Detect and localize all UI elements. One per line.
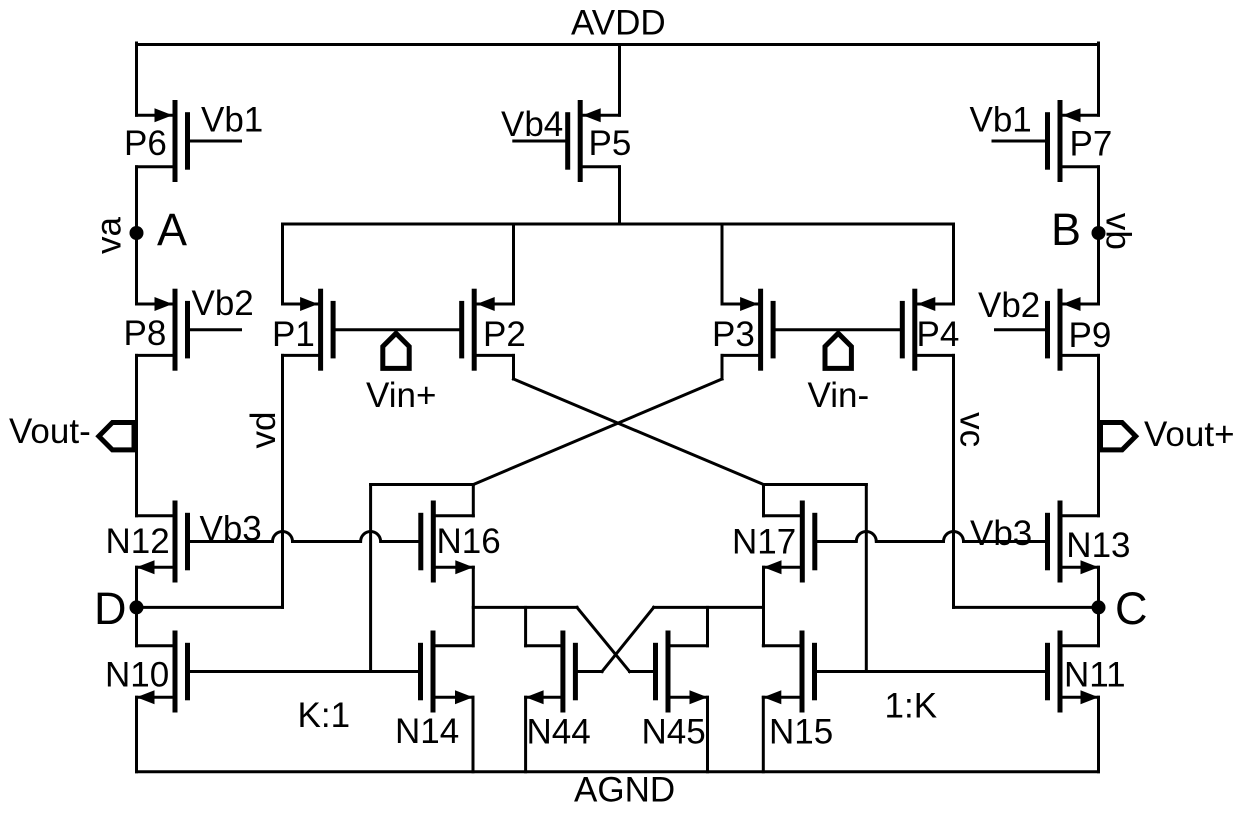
svg-text:Vb1: Vb1 xyxy=(970,101,1032,140)
transistor P6 xyxy=(137,100,191,182)
label P4 xyxy=(917,315,960,354)
svg-text:D: D xyxy=(94,583,127,634)
label P8 xyxy=(124,314,167,353)
svg-text:vb: vb xyxy=(1099,213,1138,250)
svg-text:N17: N17 xyxy=(732,523,796,562)
transistor P9 xyxy=(1045,289,1099,371)
label N16 xyxy=(437,522,501,561)
label N10 xyxy=(105,656,169,695)
wire left rail N10-AGND segment xyxy=(135,697,138,772)
wire P6 gate stub Vb1 xyxy=(190,140,241,143)
node D junction dot xyxy=(130,600,144,614)
label Vb3 right xyxy=(970,514,1032,553)
wire N17 drain corner vertical xyxy=(762,485,765,516)
wire Vb3 left gate wire with hops xyxy=(190,532,418,542)
svg-text:P4: P4 xyxy=(917,315,960,354)
label N11 xyxy=(1064,656,1126,695)
label Vout+ xyxy=(1144,415,1235,454)
svg-text:N11: N11 xyxy=(1064,656,1126,695)
label P1 xyxy=(272,315,315,354)
svg-text:vd: vd xyxy=(244,412,283,449)
svg-text:Vout-: Vout- xyxy=(9,412,91,451)
svg-text:P3: P3 xyxy=(712,315,755,354)
wire left rail top segment xyxy=(135,43,138,115)
svg-text:va: va xyxy=(90,217,129,255)
svg-text:N16: N16 xyxy=(437,522,501,561)
transistor P8 xyxy=(137,289,191,371)
label N12 xyxy=(106,522,170,561)
svg-text:P2: P2 xyxy=(483,315,526,354)
label Vb1 right xyxy=(970,101,1032,140)
transistor N14 xyxy=(418,631,473,713)
label Vb2 left xyxy=(192,284,254,323)
wire N44 drain vertical stub xyxy=(524,607,527,645)
label net vc xyxy=(952,412,991,447)
svg-text:Vb3: Vb3 xyxy=(970,514,1032,553)
svg-text:C: C xyxy=(1115,583,1148,634)
svg-text:Vb2: Vb2 xyxy=(192,284,254,323)
label P9 xyxy=(1069,316,1112,355)
svg-text:N45: N45 xyxy=(642,713,706,752)
svg-text:P5: P5 xyxy=(589,124,632,163)
wire inner source rail xyxy=(283,223,954,226)
label P6 xyxy=(124,124,167,163)
transistor P2 xyxy=(459,289,513,371)
wire N17 drain top horizontal xyxy=(764,483,867,486)
svg-text:P7: P7 xyxy=(1070,125,1113,164)
wire left rail P8-N12 segment (Vout-) xyxy=(135,355,138,515)
transistor N17 xyxy=(764,501,818,583)
transistor N13 xyxy=(1045,501,1099,583)
wire node vc vertical (P4 drain down) xyxy=(952,355,955,607)
port Vin- input pin symbol xyxy=(825,333,851,368)
label N44 xyxy=(527,713,591,752)
label net vd xyxy=(244,412,283,449)
svg-text:N13: N13 xyxy=(1066,526,1130,565)
label Vb3 left xyxy=(200,510,262,549)
label net vb xyxy=(1099,213,1138,250)
transistor N15 xyxy=(763,631,817,713)
label N15 xyxy=(769,713,833,752)
port Vout+ output pin symbol xyxy=(1101,423,1136,450)
label net va xyxy=(90,217,129,255)
transistor N10 xyxy=(137,631,191,713)
transistor N12 xyxy=(137,501,191,583)
wire P2 drain down stub xyxy=(512,355,515,379)
svg-text:K:1: K:1 xyxy=(298,696,351,735)
wire inner rail to P1 source xyxy=(281,224,284,304)
svg-text:B: B xyxy=(1051,204,1081,255)
svg-text:AVDD: AVDD xyxy=(571,4,666,43)
label AGND xyxy=(574,771,675,810)
wire node vd vertical (P1 drain down) xyxy=(281,355,284,607)
wire tail left diagonal to N45 gate xyxy=(577,607,630,671)
wire P3 drain diagonal to N16 drain xyxy=(473,379,722,485)
wire left rail P6-P8 segment (node A) xyxy=(135,167,138,304)
node B junction dot xyxy=(1092,226,1106,240)
wire inner rail to P2 source xyxy=(512,224,515,304)
label Vout- xyxy=(9,412,91,451)
label N14 xyxy=(395,712,459,751)
svg-text:P1: P1 xyxy=(272,315,315,354)
port Vout- output pin symbol xyxy=(99,423,134,450)
wire P5 gate stub Vb4 xyxy=(514,140,565,143)
transistor P7 xyxy=(1045,100,1099,182)
wire tail right diagonal to N44 gate xyxy=(602,607,654,671)
transistor P4 xyxy=(900,289,954,371)
svg-text:Vin-: Vin- xyxy=(808,376,870,415)
label P3 xyxy=(712,315,755,354)
wire N44 gate stub xyxy=(578,670,602,673)
wire AVDD top rail xyxy=(137,43,1099,46)
node C junction dot xyxy=(1092,600,1106,614)
svg-text:vc: vc xyxy=(952,412,991,447)
svg-text:P6: P6 xyxy=(124,124,167,163)
label node A xyxy=(157,204,187,255)
wire Vb3 right gate wire with hops xyxy=(817,532,1045,542)
label ratio K:1 xyxy=(298,696,351,735)
wire N15-N11 gate wire xyxy=(818,670,1046,673)
label P7 xyxy=(1070,125,1113,164)
label Vin+ xyxy=(366,376,436,415)
svg-text:N14: N14 xyxy=(395,712,459,751)
transistor P5 xyxy=(565,100,619,182)
wire right rail P7-P9 segment (node B) xyxy=(1097,167,1100,304)
wire P2 drain diagonal to N17 drain xyxy=(514,379,764,485)
wire N16 source / N14 drain vertical xyxy=(472,567,475,646)
wire inner rail to P3 source xyxy=(721,224,724,304)
svg-text:AGND: AGND xyxy=(574,771,675,810)
wire right rail top segment xyxy=(1097,43,1100,115)
wire P9 gate stub Vb2 xyxy=(996,328,1046,331)
transistor P1 xyxy=(283,289,336,371)
wire N44 source to AGND xyxy=(524,697,527,772)
wire N16 drain corner vertical xyxy=(472,485,475,516)
svg-text:1:K: 1:K xyxy=(885,687,938,726)
wire tail node left horizontal xyxy=(473,606,577,609)
node A junction dot xyxy=(130,226,144,240)
label node B xyxy=(1051,204,1081,255)
label Vb4 xyxy=(501,105,563,144)
wire right feedback vertical x=866.3 xyxy=(865,485,868,672)
wire P7 gate stub Vb1 xyxy=(993,140,1045,143)
wire N45 drain vertical stub xyxy=(706,607,709,645)
svg-text:N15: N15 xyxy=(769,713,833,752)
wire P3 drain down stub xyxy=(721,355,724,379)
label Vin- xyxy=(808,376,870,415)
label P5 xyxy=(589,124,632,163)
transistor N16 xyxy=(418,501,473,583)
wire right rail N11-AGND segment xyxy=(1097,697,1100,772)
port Vin+ input pin symbol xyxy=(383,333,409,368)
svg-text:Vout+: Vout+ xyxy=(1144,415,1235,454)
wire P1-P2 gate wire Vin+ xyxy=(336,328,460,331)
transistor P3 xyxy=(722,289,776,371)
svg-text:Vin+: Vin+ xyxy=(366,376,436,415)
svg-text:N12: N12 xyxy=(106,522,170,561)
wire N10-N14 gate wire xyxy=(190,670,419,673)
wire tail node right horizontal xyxy=(654,606,764,609)
wire N14 source to AGND xyxy=(472,697,475,772)
wire N45 gate stub xyxy=(630,670,653,673)
wire right rail P9-N13 segment (Vout+) xyxy=(1097,355,1100,515)
label Vb1 left xyxy=(201,101,263,140)
label Vb2 right xyxy=(978,286,1040,325)
label AVDD xyxy=(571,4,666,43)
wire N45 source to AGND xyxy=(706,697,709,772)
wire inner rail to P4 source xyxy=(952,224,955,304)
svg-text:Vb2: Vb2 xyxy=(978,286,1040,325)
wire left rail N12-N10 segment (node D) xyxy=(135,567,138,646)
label N45 xyxy=(642,713,706,752)
wire N16 drain top horizontal xyxy=(371,483,474,486)
wire P3-P4 gate wire Vin- xyxy=(775,328,900,331)
svg-text:Vb3: Vb3 xyxy=(200,510,262,549)
wire right rail N13-N11 segment (node C) xyxy=(1097,567,1100,646)
wire P8 gate stub Vb2 xyxy=(190,328,241,331)
wire N17 source / N15 drain vertical xyxy=(762,567,765,646)
label ratio 1:K xyxy=(885,687,938,726)
label P2 xyxy=(483,315,526,354)
transistor N45 xyxy=(653,631,708,713)
wire P5 drain to inner rail xyxy=(618,167,621,224)
label node D xyxy=(94,583,127,634)
svg-text:P9: P9 xyxy=(1069,316,1112,355)
label node C xyxy=(1115,583,1148,634)
svg-text:A: A xyxy=(157,204,187,255)
label N13 xyxy=(1066,526,1130,565)
wire node vd horizontal to node D xyxy=(137,606,283,609)
svg-text:Vb4: Vb4 xyxy=(501,105,563,144)
label N17 xyxy=(732,523,796,562)
wire N15 source to AGND xyxy=(762,697,765,772)
wire node vc horizontal to node C xyxy=(954,606,1099,609)
svg-text:N10: N10 xyxy=(105,656,169,695)
svg-text:N44: N44 xyxy=(527,713,591,752)
svg-text:P8: P8 xyxy=(124,314,167,353)
transistor N11 xyxy=(1045,631,1099,713)
wire left feedback vertical x=370.6 xyxy=(369,485,372,672)
transistor N44 xyxy=(526,631,578,713)
wire AGND bottom rail xyxy=(137,770,1099,773)
wire AVDD to P5 source stub xyxy=(618,45,621,116)
svg-text:Vb1: Vb1 xyxy=(201,101,263,140)
